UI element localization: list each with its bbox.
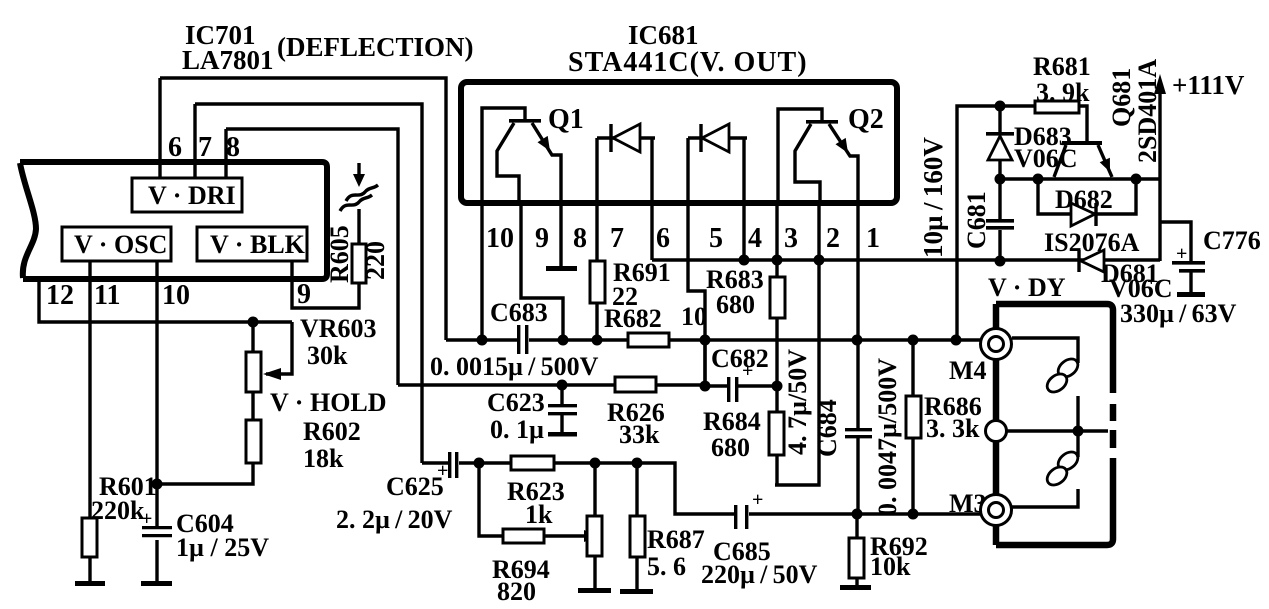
svg-text:LA7801: LA7801 — [182, 45, 274, 75]
svg-text:V · OSC: V · OSC — [74, 230, 167, 259]
svg-text:2. 2µ / 20V: 2. 2µ / 20V — [336, 505, 453, 534]
svg-text:10k: 10k — [870, 552, 911, 581]
svg-text:680: 680 — [716, 290, 755, 319]
svg-text:10: 10 — [162, 280, 190, 311]
svg-text:10µ / 160V: 10µ / 160V — [918, 137, 948, 258]
svg-text:10: 10 — [486, 223, 514, 254]
svg-text:820: 820 — [497, 577, 536, 606]
svg-text:7: 7 — [198, 132, 212, 163]
svg-text:9: 9 — [297, 279, 311, 310]
svg-text:V06C: V06C — [1014, 144, 1078, 173]
svg-text:1: 1 — [866, 223, 880, 254]
svg-text:C776: C776 — [1203, 226, 1261, 255]
svg-text:R681: R681 — [1033, 52, 1091, 81]
svg-text:5: 5 — [709, 223, 723, 254]
svg-text:3: 3 — [784, 223, 798, 254]
svg-text:7: 7 — [610, 223, 624, 254]
svg-text:+: + — [437, 460, 448, 482]
svg-text:0. 1µ: 0. 1µ — [490, 415, 544, 444]
svg-text:680: 680 — [711, 433, 750, 462]
svg-text:10: 10 — [681, 302, 707, 331]
svg-text:IC681: IC681 — [628, 20, 699, 50]
svg-text:Q681: Q681 — [1107, 68, 1136, 127]
svg-text:220k: 220k — [91, 496, 145, 525]
svg-text:C623: C623 — [487, 388, 545, 417]
svg-text:C625: C625 — [386, 472, 444, 501]
svg-text:4. 7µ/50V: 4. 7µ/50V — [783, 349, 812, 455]
svg-text:6: 6 — [656, 223, 670, 254]
svg-text:C683: C683 — [490, 298, 548, 327]
svg-text:18k: 18k — [303, 444, 344, 473]
svg-text:11: 11 — [94, 280, 120, 311]
svg-text:2: 2 — [826, 223, 840, 254]
svg-text:C682: C682 — [711, 344, 769, 373]
svg-text:6: 6 — [168, 132, 182, 163]
svg-text:R684: R684 — [703, 407, 761, 436]
svg-text:V · BLK: V · BLK — [210, 230, 306, 259]
svg-text:+: + — [742, 360, 753, 382]
svg-text:9: 9 — [535, 223, 549, 254]
svg-text:330µ / 63V: 330µ / 63V — [1120, 299, 1237, 328]
svg-text:+: + — [752, 489, 763, 511]
svg-text:30k: 30k — [307, 341, 348, 370]
svg-text:VR603: VR603 — [300, 314, 377, 343]
svg-text:R687: R687 — [647, 525, 705, 554]
svg-text:R682: R682 — [604, 304, 662, 333]
svg-text:R602: R602 — [303, 417, 361, 446]
svg-text:IS2076A: IS2076A — [1044, 228, 1140, 257]
svg-text:+: + — [141, 508, 152, 530]
svg-text:8: 8 — [226, 132, 240, 163]
svg-text:220µ / 50V: 220µ / 50V — [701, 560, 818, 589]
svg-text:5. 6: 5. 6 — [647, 552, 686, 581]
svg-text:V · DRI: V · DRI — [148, 181, 236, 210]
svg-text:V · HOLD: V · HOLD — [270, 388, 387, 417]
svg-text:1µ / 25V: 1µ / 25V — [176, 533, 269, 562]
svg-text:12: 12 — [46, 280, 74, 311]
svg-text:STA441C(V. OUT): STA441C(V. OUT) — [568, 47, 808, 78]
svg-text:(DEFLECTION): (DEFLECTION) — [277, 32, 474, 62]
svg-text:33k: 33k — [619, 420, 660, 449]
svg-text:M4: M4 — [949, 356, 987, 385]
svg-text:4: 4 — [748, 223, 762, 254]
svg-text:V · DY: V · DY — [988, 273, 1066, 302]
svg-text:1k: 1k — [525, 500, 553, 529]
svg-text:2SD401A: 2SD401A — [1133, 59, 1162, 163]
svg-text:Q2: Q2 — [848, 104, 884, 135]
svg-text:0. 0047µ/500V: 0. 0047µ/500V — [873, 358, 902, 516]
svg-text:Q1: Q1 — [548, 104, 584, 135]
svg-text:+111V: +111V — [1172, 70, 1245, 100]
svg-text:8: 8 — [573, 223, 587, 254]
svg-text:3. 3k: 3. 3k — [926, 414, 980, 443]
svg-text:+: + — [1176, 243, 1187, 265]
svg-text:0. 0015µ / 500V: 0. 0015µ / 500V — [430, 352, 599, 381]
